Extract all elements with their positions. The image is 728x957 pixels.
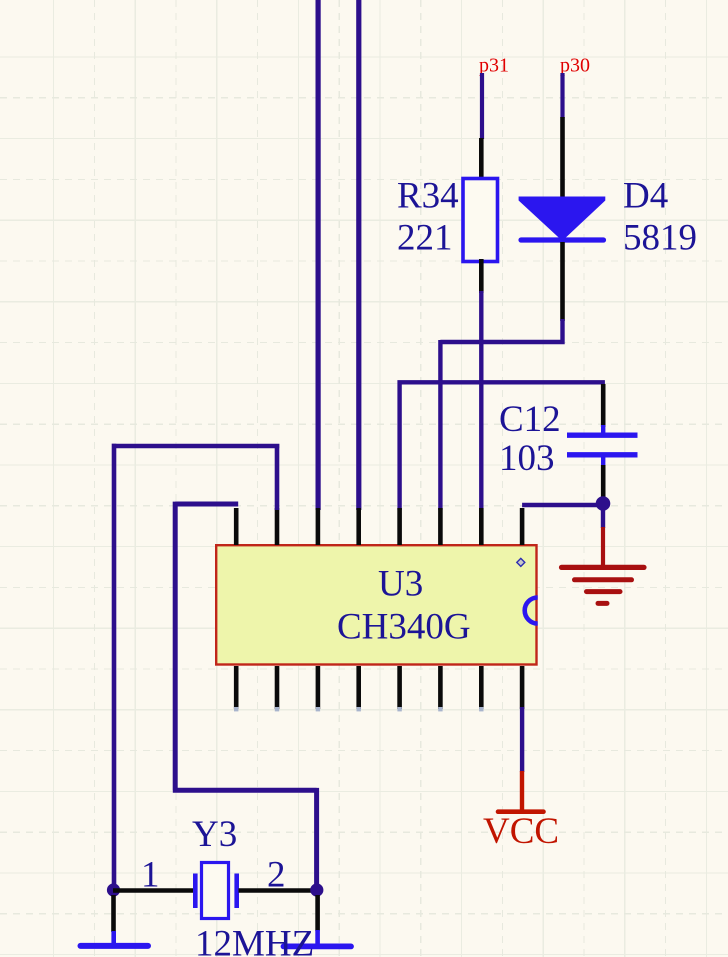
- U3 top pins 1-8: [236, 508, 522, 545]
- svg-text:CH340G: CH340G: [337, 607, 471, 648]
- svg-text:2: 2: [267, 855, 286, 896]
- ground GND1 stem: [601, 527, 605, 566]
- op IC U3 body: [216, 545, 536, 664]
- capacitor C12: [567, 425, 638, 467]
- wire stub below junction: [601, 505, 605, 528]
- diode D4 body: [519, 197, 606, 239]
- crystal Y3 right electrode: [234, 874, 239, 909]
- wire U3 pin 8 to junction: [522, 503, 603, 507]
- ground GND2 stub: [111, 931, 116, 944]
- wire net A (long vertical to pin 3): [316, 0, 321, 510]
- ground GND3 stem: [315, 895, 320, 931]
- svg-text:VCC: VCC: [483, 811, 559, 852]
- crystal Y3 left electrode: [193, 874, 198, 909]
- svg-text:C12: C12: [499, 399, 561, 440]
- wire p31: [480, 73, 484, 139]
- diamond marker on U3: [517, 558, 525, 566]
- wire p30: [560, 73, 564, 118]
- svg-text:D4: D4: [623, 176, 668, 217]
- ground GND1 bars: [562, 567, 645, 603]
- ground GND2 bar: [81, 943, 149, 949]
- junction dot crystal left: [107, 883, 120, 896]
- arc notch on U3 right edge: [525, 598, 538, 624]
- svg-text:103: 103: [499, 438, 555, 479]
- pin R34.1 (top): [479, 138, 484, 180]
- svg-text:1: 1: [141, 855, 160, 896]
- svg-text:5819: 5819: [623, 218, 697, 259]
- svg-text:U3: U3: [378, 564, 423, 605]
- svg-text:12MHZ: 12MHZ: [195, 924, 314, 957]
- wire U3 pin 1 to crystal pin 2: [173, 502, 317, 885]
- pin C12.1 (top): [601, 384, 606, 427]
- junction dot crystal right: [310, 883, 323, 896]
- pin Y3.2: [239, 888, 318, 893]
- wire U3 pin 2 to crystal pin 1: [114, 444, 279, 885]
- pin D4.1 (top): [560, 117, 565, 199]
- wire D4 to U3 pin 6: [440, 319, 564, 510]
- ground GND3 stub: [315, 930, 320, 944]
- resistor R34: [463, 179, 498, 262]
- crystal Y3 body: [202, 863, 229, 919]
- pin R34.2 (bottom): [479, 259, 484, 293]
- pin D4.2 (bottom): [560, 242, 565, 321]
- svg-text:R34: R34: [397, 176, 459, 217]
- wire R34 to U3 pin 7: [479, 291, 483, 510]
- pin C12.2 (bottom): [601, 465, 606, 498]
- ground GND2 stem: [111, 895, 116, 932]
- power VCC stem: [520, 771, 524, 811]
- svg-text:Y3: Y3: [192, 814, 237, 855]
- wire U3 pin 5 to C12 top: [397, 382, 605, 510]
- U3 bottom pins 9-16: [236, 666, 522, 709]
- pin end markers: [234, 707, 484, 711]
- junction dot: [596, 496, 611, 511]
- svg-text:221: 221: [397, 218, 453, 259]
- ground GND3 bar: [284, 944, 352, 950]
- power VCC bar: [498, 809, 544, 814]
- wire net B (long vertical to pin 4): [356, 0, 361, 510]
- pin Y3.1: [113, 888, 195, 893]
- wire VCC stub: [520, 707, 524, 772]
- diode D4 cathode bar: [521, 237, 604, 242]
